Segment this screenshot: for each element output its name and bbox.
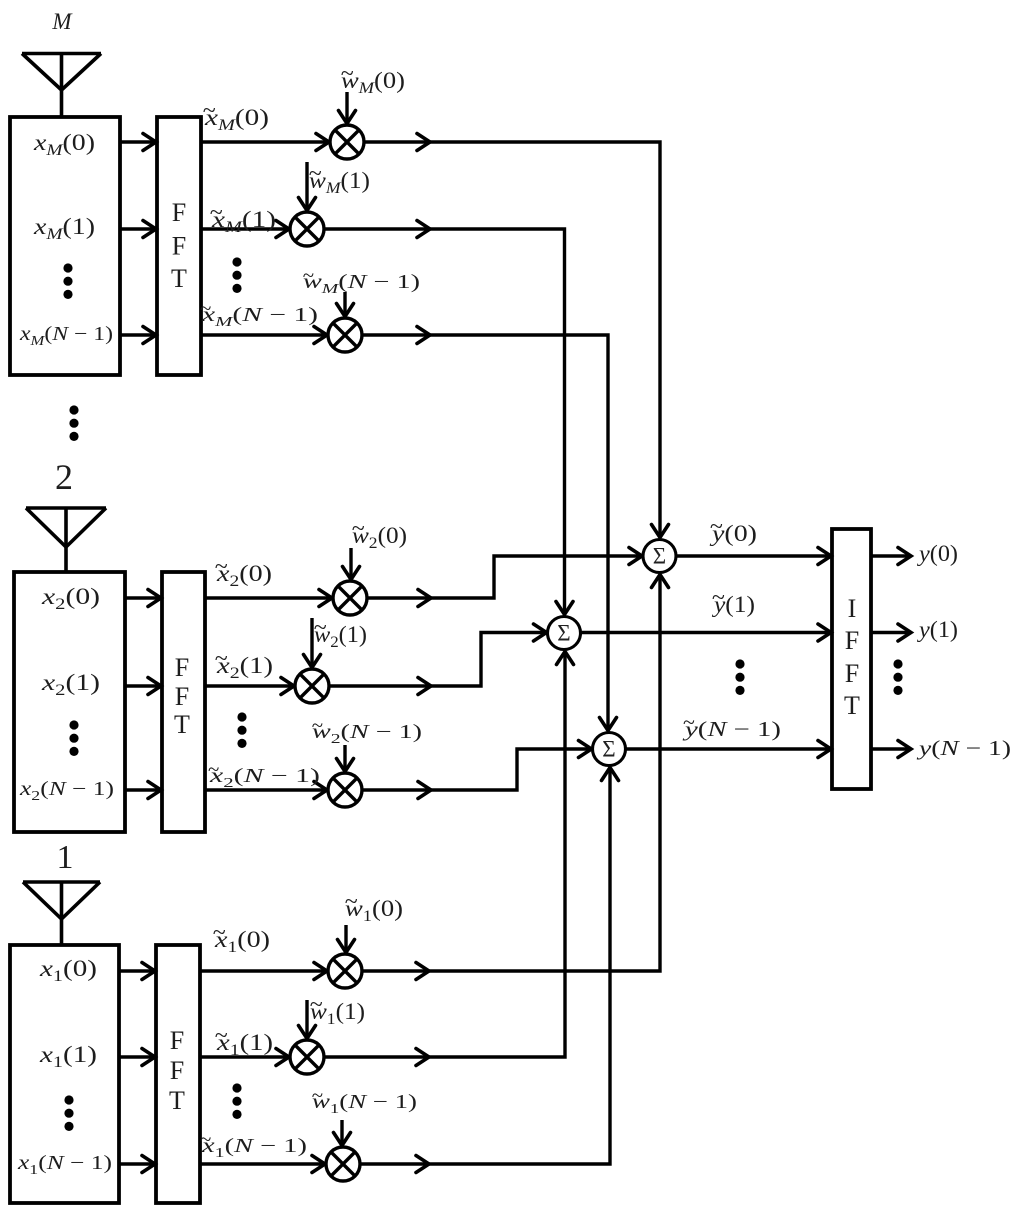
svg-text:F: F — [172, 198, 186, 227]
svg-text:F: F — [170, 1026, 184, 1055]
svg-text:y(N − 1): y(N − 1) — [682, 717, 781, 741]
svg-text:~: ~ — [341, 61, 354, 87]
svg-text:T: T — [174, 710, 190, 739]
svg-text:~: ~ — [215, 554, 228, 580]
svg-text:x1(1): x1(1) — [39, 1042, 97, 1071]
svg-text:2: 2 — [55, 457, 73, 497]
svg-text:x2(1): x2(1) — [41, 670, 100, 699]
svg-text:Σ: Σ — [602, 737, 615, 762]
svg-text:F: F — [845, 626, 859, 655]
svg-text:~: ~ — [712, 585, 725, 611]
svg-text:T: T — [844, 691, 860, 720]
svg-text:T: T — [171, 264, 187, 293]
svg-text:F: F — [175, 653, 189, 682]
svg-text:~: ~ — [200, 1127, 211, 1151]
svg-text:~: ~ — [309, 161, 322, 187]
svg-text:~: ~ — [215, 1023, 228, 1049]
svg-text:M: M — [51, 9, 73, 34]
svg-text:~: ~ — [352, 516, 365, 542]
svg-text:~: ~ — [208, 757, 219, 781]
svg-text:~: ~ — [710, 514, 723, 540]
svg-text:~: ~ — [345, 889, 358, 915]
svg-text:y(N − 1): y(N − 1) — [916, 736, 1011, 760]
svg-text:I: I — [848, 594, 857, 623]
svg-text:~: ~ — [213, 920, 226, 946]
svg-text:~: ~ — [303, 263, 314, 287]
svg-text:T: T — [169, 1086, 185, 1115]
svg-text:~: ~ — [314, 615, 327, 641]
svg-text:~: ~ — [210, 200, 223, 226]
svg-text:F: F — [845, 659, 859, 688]
svg-text:F: F — [170, 1056, 184, 1085]
svg-text:~: ~ — [203, 98, 216, 124]
svg-text:~: ~ — [312, 1083, 323, 1107]
svg-text:F: F — [172, 232, 186, 261]
svg-text:F: F — [175, 682, 189, 711]
svg-text:Σ: Σ — [557, 621, 570, 646]
svg-text:xM(0): xM(0) — [33, 130, 95, 159]
svg-text:~: ~ — [683, 710, 695, 735]
svg-text:x2(0): x2(0) — [41, 584, 100, 613]
svg-text:~: ~ — [215, 646, 228, 672]
svg-text:x1(0): x1(0) — [39, 956, 97, 985]
svg-text:~: ~ — [200, 296, 211, 320]
svg-text:xM(1): xM(1) — [33, 214, 95, 243]
svg-text:1: 1 — [57, 839, 74, 876]
svg-text:Σ: Σ — [653, 544, 666, 569]
svg-text:~: ~ — [312, 713, 323, 737]
svg-text:y(0): y(0) — [917, 541, 958, 566]
svg-text:~: ~ — [310, 992, 323, 1018]
svg-text:y(1): y(1) — [917, 617, 958, 642]
